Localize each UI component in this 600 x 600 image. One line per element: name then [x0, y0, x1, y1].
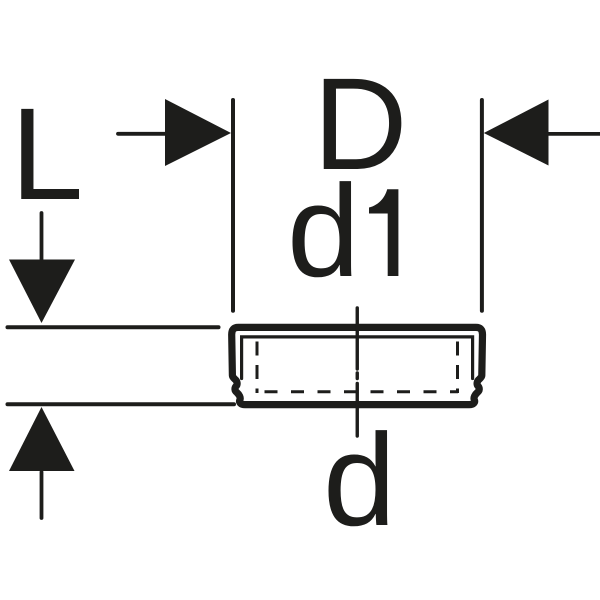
label d1 : digit 1 (helvetica-style, no foot serif)	[369, 189, 398, 276]
dimension arrow D left (pointing right) : head	[165, 99, 231, 166]
extension line D right (part right edge)	[480, 100, 484, 311]
part: hidden bore edge left (dashed)	[256, 342, 259, 394]
dimension arrow L upper (pointing down) : tail wire	[40, 213, 44, 261]
svg-text:L: L	[11, 80, 84, 227]
svg-text:d: d	[323, 406, 396, 553]
extension line, part top edge extended left	[8, 325, 219, 329]
center line (axis) upper segment	[356, 308, 359, 369]
extension line D left (part left edge)	[231, 100, 235, 311]
center line (axis) short dash	[356, 373, 359, 379]
center line (axis) lower segment	[356, 384, 359, 437]
dimension arrow D left (pointing right) : tail wire	[118, 132, 170, 136]
part: inner end-face profile line	[242, 337, 473, 379]
dimension arrow D right (pointing left) : head	[484, 100, 549, 166]
extension line, part bottom edge extended left	[8, 402, 235, 406]
part: hidden bore bottom edge (dashed)	[265, 390, 459, 393]
part: hidden bore edge right (dashed)	[456, 342, 459, 394]
dimension arrow D right (pointing left) : tail wire	[546, 132, 600, 136]
dimension arrow L lower (pointing up) : head	[9, 407, 75, 471]
svg-text:d: d	[287, 157, 360, 304]
part: outer outline of sleeve cross-section	[232, 327, 483, 404]
dimension arrow L upper (pointing down) : head	[9, 260, 75, 324]
dimension arrow L lower (pointing up) : tail wire	[40, 472, 44, 518]
